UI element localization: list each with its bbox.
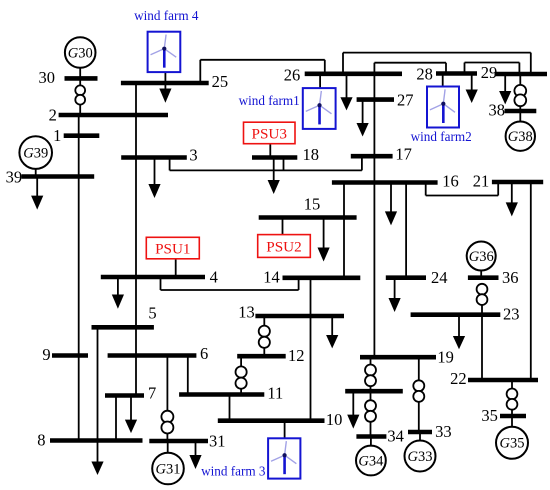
svg-text:wind farm2: wind farm2 (411, 129, 472, 144)
svg-text:2: 2 (49, 106, 57, 125)
svg-text:G31: G31 (156, 461, 181, 477)
svg-text:33: 33 (435, 422, 452, 441)
svg-text:PSU2: PSU2 (266, 238, 301, 255)
svg-text:5: 5 (148, 304, 156, 323)
svg-text:4: 4 (210, 268, 218, 287)
svg-text:39: 39 (6, 168, 23, 187)
svg-text:1: 1 (53, 126, 61, 145)
svg-text:wind farm1: wind farm1 (239, 93, 300, 108)
svg-text:9: 9 (42, 345, 50, 364)
svg-text:8: 8 (37, 431, 45, 450)
svg-text:6: 6 (200, 344, 208, 363)
svg-text:G33: G33 (408, 449, 433, 465)
svg-text:21: 21 (473, 172, 490, 191)
svg-text:G30: G30 (68, 45, 93, 61)
svg-text:G35: G35 (500, 436, 525, 452)
svg-text:29: 29 (481, 63, 498, 82)
svg-text:22: 22 (450, 369, 467, 388)
svg-text:13: 13 (238, 303, 255, 322)
svg-text:27: 27 (397, 91, 414, 110)
svg-text:G34: G34 (358, 453, 384, 469)
svg-text:25: 25 (212, 72, 229, 91)
svg-text:30: 30 (39, 68, 56, 87)
svg-text:34: 34 (387, 427, 404, 446)
svg-text:3: 3 (189, 146, 197, 165)
svg-text:35: 35 (481, 406, 498, 425)
svg-text:26: 26 (284, 66, 301, 85)
svg-text:17: 17 (395, 145, 412, 164)
svg-text:G39: G39 (23, 145, 48, 161)
svg-text:23: 23 (503, 305, 520, 324)
svg-text:G36: G36 (469, 249, 494, 265)
svg-text:14: 14 (263, 268, 280, 287)
svg-text:36: 36 (502, 268, 519, 287)
svg-text:28: 28 (416, 65, 433, 84)
svg-text:15: 15 (304, 195, 321, 214)
svg-text:PSU3: PSU3 (252, 125, 287, 142)
svg-text:wind farm 3: wind farm 3 (201, 464, 266, 479)
svg-text:38: 38 (488, 101, 505, 120)
svg-text:31: 31 (209, 432, 226, 451)
svg-text:11: 11 (267, 384, 283, 403)
svg-text:19: 19 (437, 348, 454, 367)
svg-text:18: 18 (303, 145, 320, 164)
svg-text:wind farm 4: wind farm 4 (134, 8, 199, 23)
svg-text:7: 7 (148, 384, 156, 403)
svg-text:24: 24 (431, 268, 448, 287)
svg-text:16: 16 (442, 172, 459, 191)
svg-text:10: 10 (326, 410, 343, 429)
svg-text:PSU1: PSU1 (155, 240, 190, 257)
svg-text:G38: G38 (508, 129, 533, 145)
svg-text:12: 12 (288, 346, 305, 365)
